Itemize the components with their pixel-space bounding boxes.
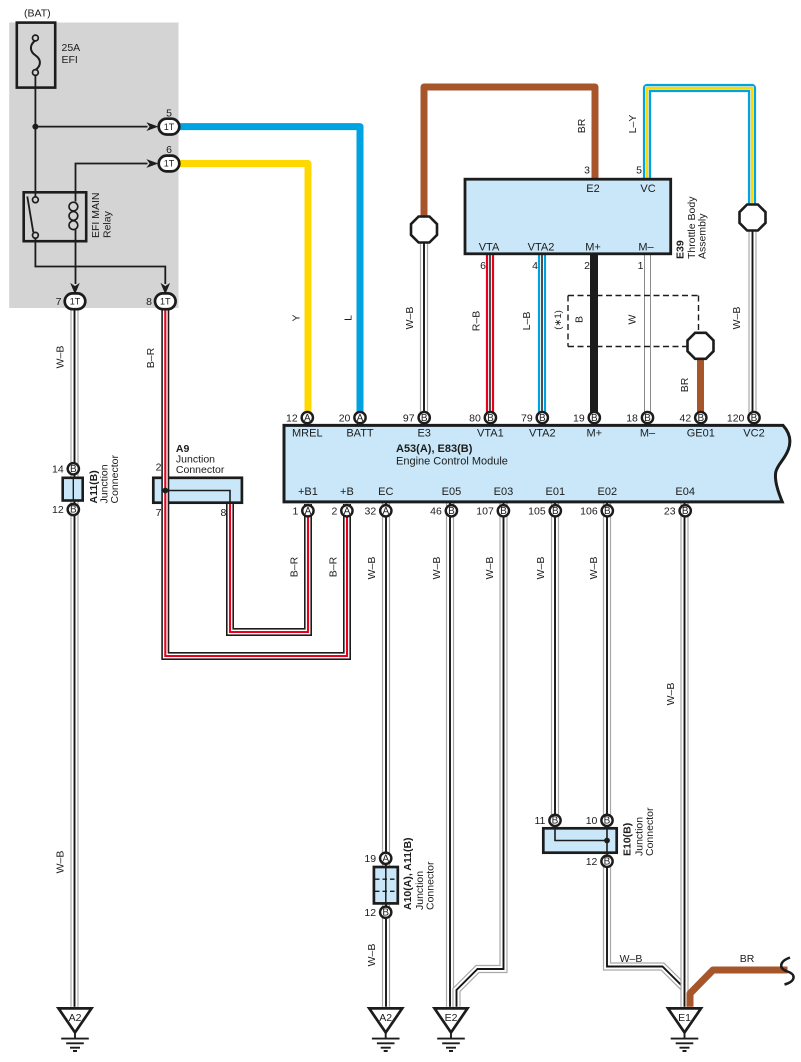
E10 pin 10 — [586, 815, 613, 827]
junction connector E10(B) box — [543, 828, 616, 855]
battery feed block background — [9, 23, 178, 309]
throttle body assembly E39 box — [465, 179, 671, 254]
svg-text:M+: M+ — [585, 242, 601, 254]
wire L terminal 5 to ECM BATT — [180, 127, 361, 413]
svg-text:2: 2 — [156, 462, 162, 474]
wire L-Y throttle body VC to octagon — [647, 88, 752, 206]
svg-text:L–Y: L–Y — [627, 115, 639, 134]
connector oval 1T terminal 8 — [155, 293, 176, 309]
ground A2 — [369, 1008, 402, 1051]
svg-text:B: B — [552, 816, 559, 827]
svg-text:E05: E05 — [442, 486, 462, 498]
svg-text:B: B — [539, 413, 546, 424]
wire BR throttle body E2 to shield octagon — [424, 87, 595, 217]
ECM pin 97 E3 — [403, 412, 430, 424]
svg-text:B: B — [382, 907, 389, 918]
wire W-B ECM E01 to E10 pin 11 — [551, 503, 559, 815]
svg-text:B: B — [448, 506, 455, 517]
ECM pin 19 M+ — [573, 412, 600, 424]
svg-text:B: B — [552, 506, 559, 517]
svg-text:25A: 25A — [62, 42, 81, 54]
svg-text:12: 12 — [364, 907, 376, 919]
svg-text:(BAT): (BAT) — [24, 8, 51, 20]
wire W-B E10 pin 12 to ground E1 — [607, 866, 685, 988]
svg-text:E3: E3 — [417, 428, 430, 440]
svg-text:B: B — [697, 413, 704, 424]
fuse element symbol — [31, 35, 40, 75]
svg-text:VTA2: VTA2 — [528, 242, 555, 254]
wire B-R A9 pin8 to ECM +B1 — [230, 504, 308, 632]
svg-text:VTA: VTA — [479, 242, 500, 254]
svg-text:A: A — [344, 506, 351, 517]
svg-text:W–B: W–B — [366, 557, 378, 580]
ECM pin 1 +B1 — [292, 505, 313, 517]
connector oval 1T terminal 5 — [159, 119, 180, 135]
svg-text:2: 2 — [331, 506, 337, 518]
ground E2 — [435, 1008, 468, 1051]
E10 pin 11 — [534, 815, 560, 827]
wire W-B ECM E02 to E10 pin 10 — [603, 503, 611, 815]
connector oval 1T terminal 6 — [159, 156, 180, 172]
ECM pin 46 E05 — [430, 505, 457, 517]
wire W-B ECM E05 to ground E2 — [446, 503, 454, 1007]
svg-text:2: 2 — [584, 260, 590, 272]
connector oval 1T terminal 7 — [65, 293, 86, 309]
svg-text:GE01: GE01 — [687, 428, 715, 440]
ECM pin 32 EC — [365, 505, 392, 517]
svg-text:A: A — [382, 506, 389, 517]
svg-text:L–B: L–B — [521, 312, 533, 331]
ground A2 left — [59, 1008, 92, 1051]
ECM name label — [396, 443, 508, 468]
svg-text:W–B: W–B — [665, 683, 677, 706]
wire relay coil to terminal 7 — [75, 230, 77, 285]
svg-text:E04: E04 — [675, 486, 695, 498]
svg-text:VC2: VC2 — [743, 428, 764, 440]
svg-text:EFI: EFI — [62, 54, 78, 66]
ECM pin 12 MREL — [286, 412, 313, 424]
svg-text:79: 79 — [521, 412, 533, 424]
svg-text:Connector: Connector — [176, 464, 225, 476]
svg-text:W–B: W–B — [731, 307, 743, 330]
svg-text:105: 105 — [528, 506, 546, 518]
svg-text:1: 1 — [292, 506, 298, 518]
svg-text:32: 32 — [365, 506, 377, 518]
svg-text:R–B: R–B — [471, 311, 483, 331]
svg-text:A: A — [305, 506, 312, 517]
wire W-B ECM E03 to ground E2 — [457, 503, 504, 1007]
arrow into terminal 7 — [70, 283, 80, 295]
svg-text:M–: M– — [640, 428, 656, 440]
svg-text:1T: 1T — [160, 297, 171, 307]
svg-text:12: 12 — [586, 856, 598, 868]
svg-text:Assembly: Assembly — [697, 213, 709, 259]
svg-text:B: B — [500, 506, 507, 517]
svg-text:B: B — [604, 506, 611, 517]
svg-text:W–B: W–B — [431, 557, 443, 580]
svg-text:B: B — [644, 413, 651, 424]
A10 pin 19 — [364, 853, 391, 865]
svg-text:L: L — [343, 315, 355, 321]
svg-text:VTA1: VTA1 — [477, 428, 504, 440]
shield dashed box (*1) — [568, 296, 699, 347]
ECM pin 42 GE01 — [680, 412, 707, 424]
svg-text:11: 11 — [534, 815, 545, 827]
svg-text:Engine Control Module: Engine Control Module — [396, 456, 508, 468]
svg-text:19: 19 — [573, 412, 585, 424]
svg-text:W: W — [627, 314, 639, 324]
svg-text:B: B — [487, 413, 494, 424]
svg-text:7: 7 — [156, 507, 162, 519]
shield octagon at GE01 wire — [688, 333, 714, 359]
svg-text:(∗1): (∗1) — [553, 310, 564, 330]
svg-text:80: 80 — [469, 412, 481, 424]
fuse F 25A EFI box — [17, 23, 55, 88]
ground E1 — [668, 1008, 701, 1051]
svg-text:A: A — [382, 854, 389, 865]
ECM pin 107 E03 — [476, 505, 509, 517]
svg-text:E1: E1 — [678, 1012, 691, 1024]
ECM pin 18 M- — [626, 412, 653, 424]
svg-text:A53(A), E83(B): A53(A), E83(B) — [396, 443, 473, 455]
relay K1 EFI MAIN Relay box — [24, 192, 86, 241]
svg-text:EFI MAIN: EFI MAIN — [90, 192, 102, 238]
wire W-B ECM E04 to ground E1 — [680, 503, 688, 1007]
svg-text:MREL: MREL — [292, 428, 323, 440]
A11(B) pin 12 — [52, 504, 79, 516]
svg-text:B: B — [574, 316, 586, 323]
break symbol on BR wire — [781, 958, 793, 985]
node junction dot — [32, 124, 38, 130]
svg-text:B–R: B–R — [328, 556, 340, 577]
ECM pin 20 BATT — [339, 412, 366, 424]
svg-text:A2: A2 — [69, 1012, 82, 1024]
svg-text:106: 106 — [580, 506, 598, 518]
svg-text:A2: A2 — [379, 1012, 392, 1024]
svg-text:W–B: W–B — [620, 953, 643, 965]
E10(B) name label — [622, 807, 657, 856]
A10 pin 12 — [364, 907, 391, 919]
wire Y terminal 6 to ECM MREL — [180, 164, 309, 414]
E39 throttle body name label — [675, 196, 709, 259]
svg-text:107: 107 — [476, 506, 494, 518]
svg-text:4: 4 — [532, 260, 538, 272]
svg-text:23: 23 — [664, 506, 676, 518]
svg-text:A: A — [304, 413, 311, 424]
svg-text:Y: Y — [291, 314, 303, 321]
svg-text:BATT: BATT — [346, 428, 374, 440]
wire W-B octagon to ECM E3 — [420, 229, 428, 413]
ECM pin 120 VC2 — [727, 412, 760, 424]
svg-text:B–R: B–R — [289, 556, 301, 577]
svg-text:B: B — [604, 857, 611, 868]
wire relay coil to terminal 6 — [76, 164, 148, 202]
junction connector A10(A) A11(B) box — [374, 867, 398, 903]
ECM pin 80 VTA1 — [469, 412, 496, 424]
svg-text:B–R: B–R — [145, 347, 157, 368]
svg-text:E10(B): E10(B) — [622, 823, 634, 856]
shield octagon at VC2 wire — [740, 205, 766, 231]
svg-text:BR: BR — [740, 953, 755, 965]
svg-text:1T: 1T — [164, 159, 175, 169]
ECM pin 106 E02 — [580, 505, 613, 517]
wire relay switch to terminal 8 — [35, 236, 165, 284]
wire W-B terminal 7 to ground A2 left — [70, 308, 78, 1007]
A10 name label — [402, 837, 437, 910]
svg-text:1T: 1T — [70, 297, 81, 307]
svg-text:1: 1 — [638, 260, 644, 272]
svg-text:BR: BR — [679, 377, 691, 392]
svg-text:E2: E2 — [445, 1012, 458, 1024]
A11(B) pin 14 — [52, 463, 79, 475]
wire junction to terminal 5 — [35, 126, 147, 128]
svg-text:B: B — [70, 505, 77, 516]
svg-text:6: 6 — [166, 144, 172, 156]
svg-text:42: 42 — [680, 412, 692, 424]
svg-text:20: 20 — [339, 412, 351, 424]
arrow into terminal 6 — [146, 159, 158, 168]
wire W throttle body M- to ECM M- — [644, 255, 651, 413]
svg-text:M+: M+ — [587, 428, 603, 440]
svg-text:B: B — [591, 413, 598, 424]
svg-text:W–B: W–B — [55, 346, 67, 369]
svg-text:E39: E39 — [675, 240, 687, 259]
svg-text:B: B — [70, 464, 77, 475]
svg-text:1T: 1T — [164, 122, 175, 132]
shield octagon at E3 wire — [411, 217, 437, 243]
ECM pin 2 +B — [331, 505, 352, 517]
arrow into terminal 8 — [161, 283, 171, 295]
svg-text:8: 8 — [220, 507, 226, 519]
svg-text:3: 3 — [584, 165, 590, 177]
svg-text:5: 5 — [166, 107, 172, 119]
svg-text:A: A — [357, 413, 364, 424]
wire fuse to relay switch — [34, 75, 36, 197]
svg-text:10: 10 — [586, 815, 598, 827]
svg-text:A10(A), A11(B): A10(A), A11(B) — [402, 837, 414, 910]
svg-text:E03: E03 — [494, 486, 514, 498]
ECM pin 105 E01 — [528, 505, 561, 517]
svg-text:+B1: +B1 — [298, 486, 318, 498]
svg-text:VTA2: VTA2 — [529, 428, 556, 440]
wire W-B ECM EC to ground A2 — [382, 503, 390, 1007]
svg-text:Connector: Connector — [644, 807, 656, 856]
svg-text:14: 14 — [52, 464, 64, 476]
fuse value label 25A EFI — [62, 42, 81, 66]
svg-text:EC: EC — [378, 486, 393, 498]
relay switch contact — [27, 197, 38, 239]
svg-text:120: 120 — [727, 412, 745, 424]
wire W-B octagon to ECM VC2 — [748, 229, 756, 413]
svg-text:5: 5 — [636, 165, 642, 177]
wire B-R terminal 8 through A9 pin7 to ECM +B — [165, 308, 347, 656]
svg-text:97: 97 — [403, 412, 415, 424]
svg-text:46: 46 — [430, 506, 442, 518]
A9 name label — [176, 443, 225, 476]
svg-text:B: B — [682, 506, 689, 517]
svg-text:W–B: W–B — [588, 557, 600, 580]
svg-text:E2: E2 — [586, 183, 599, 195]
svg-text:W–B: W–B — [484, 557, 496, 580]
svg-text:18: 18 — [626, 412, 638, 424]
svg-text:Connector: Connector — [425, 861, 437, 910]
svg-text:E01: E01 — [546, 486, 566, 498]
svg-text:W–B: W–B — [55, 851, 67, 874]
svg-text:7: 7 — [56, 296, 62, 308]
svg-text:W–B: W–B — [404, 307, 416, 330]
svg-text:+B: +B — [340, 486, 354, 498]
arrow into terminal 5 — [146, 122, 158, 131]
svg-text:8: 8 — [146, 296, 152, 308]
svg-text:BR: BR — [576, 118, 588, 133]
E10 pin 12 — [586, 856, 613, 868]
svg-text:Relay: Relay — [102, 210, 114, 238]
svg-text:W–B: W–B — [535, 557, 547, 580]
ECM pin 79 VTA2 — [521, 412, 548, 424]
svg-text:6: 6 — [480, 260, 486, 272]
A11(B) name label — [88, 455, 121, 504]
wire L-B throttle body VTA2 to ECM VTA2 — [538, 255, 546, 413]
ECM A53(A) E83(B) box — [284, 425, 790, 502]
svg-text:E02: E02 — [598, 486, 618, 498]
svg-text:19: 19 — [364, 853, 376, 865]
wire BR from right break to ground E1 — [690, 970, 788, 1007]
wire B throttle body M+ to ECM M+ — [590, 255, 598, 413]
svg-text:12: 12 — [52, 504, 64, 516]
svg-text:B: B — [604, 816, 611, 827]
wire BR shield octagon to ECM GE01 — [697, 357, 704, 413]
svg-text:12: 12 — [286, 412, 298, 424]
junction connector A11(B) box — [63, 478, 83, 501]
ECM pin 23 E04 — [664, 505, 691, 517]
wire R-B throttle body VTA to ECM VTA1 — [486, 255, 494, 413]
svg-text:Connector: Connector — [109, 455, 121, 504]
svg-text:B: B — [421, 413, 428, 424]
svg-text:B: B — [751, 413, 758, 424]
svg-text:W–B: W–B — [366, 944, 378, 967]
svg-text:VC: VC — [640, 183, 655, 195]
relay coil — [69, 202, 78, 229]
junction connector A9 box — [153, 478, 242, 503]
svg-text:M–: M– — [638, 242, 654, 254]
junction connector A9 internal link — [162, 488, 230, 504]
relay name label EFI MAIN Relay — [90, 192, 114, 238]
